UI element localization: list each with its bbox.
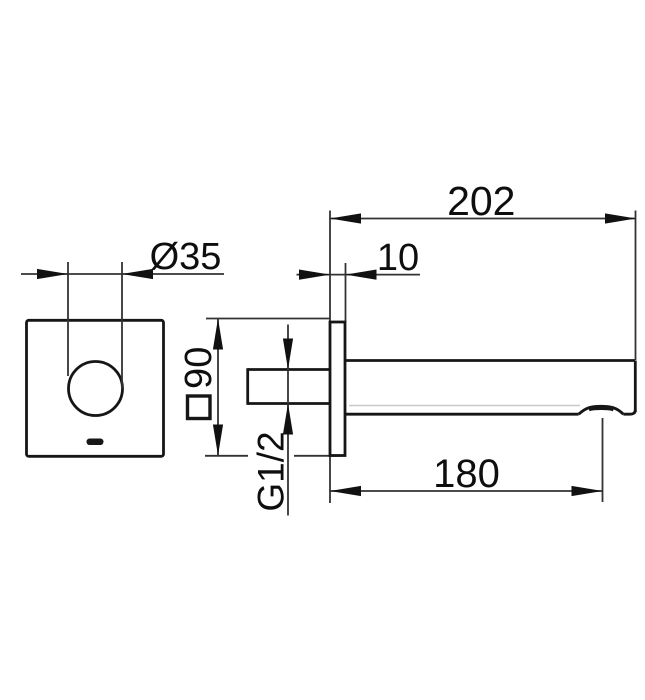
dim Ø35 arrow left	[37, 269, 68, 279]
dim Ø35 dimension line	[21, 273, 224, 275]
side view connection pipe top edge	[248, 368, 330, 371]
dim 90 bottom extension line (left piece)	[205, 455, 248, 457]
dim 90 dimension line	[217, 319, 219, 456]
svg-text:G1/2: G1/2	[251, 431, 292, 511]
dim 10 dimension line	[297, 274, 421, 276]
spout top edge	[344, 359, 635, 362]
front view indicator slot	[87, 439, 104, 446]
side view connection pipe bottom edge	[248, 402, 330, 405]
front view handle circle	[69, 362, 123, 416]
dim 10 extension line right (plate front face)	[345, 263, 347, 322]
dim G1/2 arrow top (pointing down)	[283, 339, 293, 370]
dim Ø35 extension line right	[121, 262, 123, 389]
dim 90 arrow top (pointing up)	[213, 319, 223, 350]
dim G1/2 arrow bottom (pointing up)	[283, 404, 293, 435]
dim 202 extension line right / spout tip edge extension	[635, 211, 637, 361]
dim 10 arrow right (outside, pointing left)	[346, 270, 377, 280]
square symbol for dim 90	[188, 396, 211, 419]
dim 10 arrow left (outside, pointing right)	[299, 270, 330, 280]
svg-text:Ø35: Ø35	[150, 236, 222, 278]
svg-text:90: 90	[178, 347, 220, 389]
svg-text:180: 180	[433, 452, 500, 496]
dim 90 arrow bottom (pointing down)	[213, 425, 223, 456]
dim 180 extension line right (outlet axis)	[602, 418, 604, 502]
svg-text:202: 202	[447, 178, 515, 224]
front view wall plate (square)	[27, 320, 164, 456]
dim 90 top extension line	[206, 318, 330, 320]
dim 202 dimension line	[330, 218, 636, 220]
dim G1/2 vertical line	[287, 325, 289, 516]
spout outlet wave	[579, 406, 624, 414]
dim Ø35 arrow right	[122, 269, 153, 279]
dim 180 dimension line	[330, 490, 603, 492]
svg-text:10: 10	[377, 237, 419, 279]
spout bottom edge	[345, 413, 579, 416]
wall plane extension line (left of side view)	[329, 211, 331, 504]
spout tip bottom rounded corner	[623, 410, 635, 414]
dim 202 arrow right	[605, 213, 636, 223]
side view wall plate	[330, 322, 345, 456]
spout inner channel line (faint)	[349, 405, 580, 407]
dim 180 arrow left	[330, 486, 361, 496]
dim Ø35 extension line left	[67, 262, 69, 376]
side view connection pipe end cap	[246, 368, 249, 405]
dim 202 arrow left	[330, 213, 361, 223]
dim 90 bottom extension line (right piece)	[294, 455, 339, 457]
spout outlet wave thick crest	[589, 408, 614, 409]
dim 180 arrow right	[572, 486, 603, 496]
spout tip edge	[634, 361, 637, 413]
